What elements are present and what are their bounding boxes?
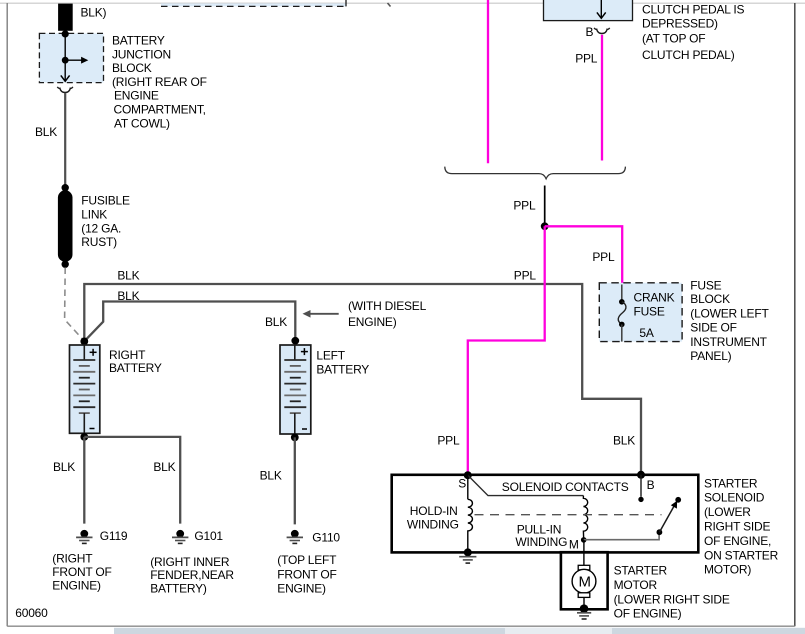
node: junction block tap dot — [62, 57, 69, 64]
label starter motor — [614, 564, 730, 621]
wire B stub to contact — [640, 475, 642, 497]
svg-text:PANEL): PANEL) — [690, 349, 731, 363]
svg-text:B: B — [647, 478, 655, 492]
label G119 location — [52, 552, 111, 593]
junction block internal right arrow — [65, 57, 88, 64]
node: switch pivot — [657, 529, 663, 535]
svg-text:M: M — [569, 538, 579, 552]
node: right battery negative — [80, 433, 88, 441]
node: hold-in ground dot — [464, 548, 472, 556]
dashed linkage line — [475, 514, 662, 516]
node: junction block input dot — [62, 30, 69, 37]
label starter solenoid — [704, 476, 779, 576]
ground solenoid — [459, 557, 476, 563]
node: PPL splice dot — [541, 222, 549, 230]
svg-text:SIDE OF: SIDE OF — [690, 320, 736, 334]
svg-text:(RIGHT REAR OF: (RIGHT REAR OF — [112, 75, 207, 89]
node: fusible link top dot — [61, 184, 68, 191]
battery left — [280, 345, 311, 437]
svg-text:ENGINE): ENGINE) — [348, 315, 397, 329]
svg-text:S: S — [458, 477, 466, 491]
ground G119 — [76, 530, 92, 544]
svg-text:CLUTCH PEDAL IS: CLUTCH PEDAL IS — [642, 3, 744, 17]
wire right battery to G119 — [83, 437, 85, 524]
wire: thick black feed at top left — [58, 4, 73, 31]
node: left battery positive — [291, 337, 299, 345]
svg-text:DEPRESSED): DEPRESSED) — [642, 17, 718, 31]
svg-text:PPL: PPL — [575, 52, 598, 66]
starter solenoid box — [392, 475, 699, 553]
wire PPL splice to solenoid S — [468, 226, 545, 475]
page right border — [794, 3, 796, 626]
page bottom border — [7, 625, 795, 627]
svg-text:BLK: BLK — [265, 315, 287, 329]
svg-text:BLOCK: BLOCK — [690, 292, 730, 306]
ground starter motor — [577, 613, 591, 619]
connector under clutch box — [594, 28, 610, 34]
clutch pedal position switch box (cut off) — [544, 0, 633, 21]
svg-text:(LOWER: (LOWER — [704, 505, 751, 519]
svg-text:(LOWER RIGHT SIDE: (LOWER RIGHT SIDE — [614, 593, 730, 607]
connector under junction block — [57, 87, 73, 93]
page top border — [0, 2, 805, 4]
node: left battery negative — [291, 434, 299, 442]
inductor pull-in winding — [583, 496, 587, 540]
svg-text:PPL: PPL — [513, 199, 536, 213]
svg-text:(RIGHT: (RIGHT — [52, 552, 93, 566]
node: fusible link bottom dot — [61, 261, 68, 268]
svg-text:PPL: PPL — [437, 433, 460, 447]
svg-text:PPL: PPL — [514, 269, 537, 283]
svg-text:G110: G110 — [312, 530, 340, 544]
svg-text:WINDING: WINDING — [407, 518, 459, 532]
label pull-in winding — [515, 523, 567, 550]
svg-text:M: M — [579, 574, 591, 591]
battery junction block — [39, 33, 103, 82]
svg-text:(12 GA.: (12 GA. — [81, 221, 121, 235]
svg-text:COMPARTMENT,: COMPARTMENT, — [114, 103, 206, 117]
ground G101 — [172, 530, 188, 544]
node: M terminal — [581, 537, 587, 543]
wire solenoid contacts S to pull-in — [468, 475, 584, 495]
svg-text:G101: G101 — [194, 529, 223, 543]
svg-text:BLK: BLK — [35, 125, 57, 139]
label with diesel engine — [348, 299, 427, 329]
wire left battery to G110 — [294, 437, 296, 524]
label hold-in winding — [407, 504, 459, 532]
svg-text:CRANK: CRANK — [634, 291, 675, 305]
inductor hold-in winding — [468, 499, 473, 552]
svg-text:CLUTCH PEDAL): CLUTCH PEDAL) — [642, 48, 735, 62]
svg-text:FUSE: FUSE — [690, 279, 721, 293]
wire PPL splice to crank fuse — [545, 226, 623, 284]
svg-text:BLOCK: BLOCK — [112, 61, 152, 75]
crank fuse F1 — [618, 285, 626, 342]
junction block internal down arrow — [61, 34, 70, 81]
svg-text:BLK: BLK — [53, 460, 75, 474]
svg-text:BLK: BLK — [117, 289, 139, 303]
svg-text:B: B — [586, 25, 594, 39]
wire BLK junction block to fusible link — [64, 93, 66, 188]
label crank fuse — [634, 291, 675, 341]
svg-text:(WITH DIESEL: (WITH DIESEL — [348, 299, 427, 313]
dashed wire fusible link to battery junction — [65, 268, 84, 341]
svg-text:AT COWL): AT COWL) — [114, 116, 170, 130]
wire BLK branch to left battery — [84, 302, 295, 342]
svg-text:STARTER: STARTER — [704, 476, 758, 490]
svg-text:BLK: BLK — [153, 460, 175, 474]
label right battery — [109, 348, 162, 375]
svg-text:RIGHT SIDE: RIGHT SIDE — [704, 520, 770, 534]
node: B terminal — [637, 471, 645, 479]
svg-text:STARTER: STARTER — [614, 564, 668, 578]
svg-text:BLK): BLK) — [81, 5, 107, 19]
wire M to switch pivot — [584, 533, 659, 540]
label G101 location — [150, 555, 234, 596]
battery right — [70, 345, 100, 437]
svg-text:ENGINE: ENGINE — [114, 89, 159, 103]
svg-text:ENGINE): ENGINE) — [277, 581, 326, 595]
ground G110 — [287, 530, 303, 544]
fuse block box — [599, 283, 682, 342]
wire M to motor — [583, 540, 585, 565]
wire right battery to G101 — [84, 437, 180, 524]
svg-text:MOTOR): MOTOR) — [704, 563, 751, 577]
label fusible link — [81, 194, 130, 250]
clutch box internal down arrow — [597, 0, 606, 18]
svg-text:PPL: PPL — [592, 250, 615, 264]
bottom ui bar — [114, 628, 805, 634]
svg-text:BATTERY: BATTERY — [316, 363, 369, 377]
label clutch pedal note — [642, 3, 744, 62]
svg-text:BLK: BLK — [117, 269, 139, 283]
svg-text:SOLENOID: SOLENOID — [704, 491, 765, 505]
switch arm with arrowhead — [659, 501, 677, 533]
merge brace — [445, 167, 626, 179]
svg-text:(LOWER LEFT: (LOWER LEFT — [690, 306, 769, 320]
svg-text:FRONT OF: FRONT OF — [52, 565, 111, 579]
svg-text:5A: 5A — [639, 326, 653, 340]
node: B contact — [638, 497, 643, 502]
svg-text:(AT TOP OF: (AT TOP OF — [642, 32, 705, 46]
svg-text:BLK: BLK — [260, 469, 282, 483]
svg-text:JUNCTION: JUNCTION — [112, 47, 171, 61]
svg-text:BLK: BLK — [613, 433, 635, 447]
dashed box top left (cut off) — [161, 3, 346, 6]
svg-text:FRONT OF: FRONT OF — [277, 567, 336, 581]
starter motor box — [561, 552, 608, 609]
svg-text:WINDING: WINDING — [515, 535, 567, 549]
svg-text:OF ENGINE,: OF ENGINE, — [704, 534, 771, 548]
svg-text:BATTERY: BATTERY — [109, 361, 162, 375]
wire PPL from clutch switch left — [487, 0, 489, 163]
label battery junction block — [112, 34, 207, 131]
node: switch fixed contact — [675, 497, 681, 503]
label G110 location — [277, 553, 337, 596]
svg-text:INSTRUMENT: INSTRUMENT — [690, 335, 767, 349]
svg-text:LEFT: LEFT — [316, 349, 345, 363]
svg-text:FENDER,NEAR: FENDER,NEAR — [150, 568, 234, 582]
wire S to hold-in winding — [467, 475, 469, 499]
arrow with diesel engine — [303, 310, 339, 318]
node: right battery positive — [80, 338, 88, 346]
page left border — [6, 3, 8, 626]
svg-text:BATTERY): BATTERY) — [150, 581, 207, 595]
svg-text:ON STARTER: ON STARTER — [704, 548, 779, 562]
label fuse block — [690, 279, 769, 363]
svg-text:LINK: LINK — [81, 207, 107, 221]
label left battery — [316, 349, 369, 377]
svg-text:(TOP LEFT: (TOP LEFT — [277, 553, 337, 567]
svg-text:OF ENGINE): OF ENGINE) — [614, 607, 682, 621]
svg-text:HOLD-IN: HOLD-IN — [410, 504, 458, 518]
svg-text:BATTERY: BATTERY — [112, 34, 165, 48]
node: S terminal — [464, 471, 472, 479]
svg-text:(RIGHT INNER: (RIGHT INNER — [150, 555, 230, 569]
node: motor ground dot — [580, 604, 589, 613]
fusible link — [58, 190, 73, 261]
svg-text:SOLENOID CONTACTS: SOLENOID CONTACTS — [502, 480, 629, 494]
wire PPL from clutch switch B — [601, 35, 603, 161]
small mark top — [388, 3, 391, 7]
svg-text:FUSE: FUSE — [634, 305, 665, 319]
svg-text:MOTOR: MOTOR — [614, 578, 658, 592]
svg-text:FUSIBLE: FUSIBLE — [81, 194, 130, 208]
wire PPL brace output — [544, 186, 546, 224]
svg-text:G119: G119 — [100, 529, 128, 543]
wire BLK main feed: battery junction to B terminal — [84, 284, 641, 475]
svg-text:60060: 60060 — [15, 606, 48, 620]
svg-text:RUST): RUST) — [81, 235, 117, 249]
motor M1 — [572, 565, 596, 605]
svg-text:ENGINE): ENGINE) — [52, 579, 101, 593]
